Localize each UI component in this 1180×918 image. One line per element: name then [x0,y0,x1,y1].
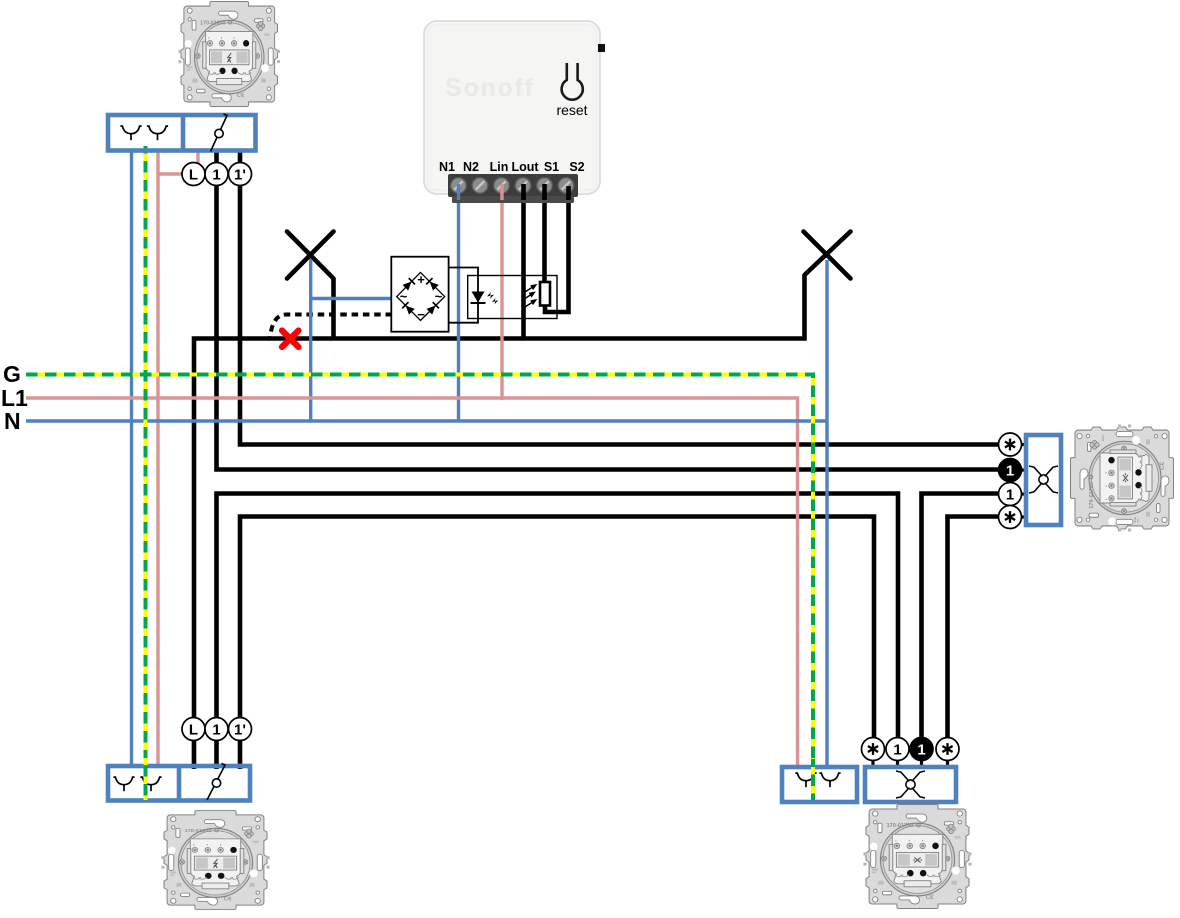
wire N to lamp2 [825,260,828,767]
wire lamp E1 to bus [331,278,336,339]
svg-text:N: N [4,408,21,434]
wire cross right 1 [922,494,1000,739]
switch symbol bottom-left box [207,764,225,801]
lamp symbols top box [120,126,141,140]
lamp E2 [804,232,851,279]
svg-text:+: + [417,272,425,287]
svg-text:N1: N1 [439,160,455,174]
wire S1 [542,186,547,283]
terminal star br [936,738,959,761]
red X do-not-connect [282,331,299,348]
wire Lout [521,186,526,339]
G riser over boxes [146,758,814,800]
terminal 1 white br [886,738,909,761]
terminal strip [448,174,578,197]
svg-text:1: 1 [212,166,220,183]
stubs top switch [217,150,241,163]
wire dotted bypass (not used) [270,315,392,338]
terminal labels [439,160,585,174]
wire N1 [457,186,460,421]
net G earth line [26,375,813,801]
svg-text:1: 1 [1006,486,1014,503]
svg-text:1: 1 [893,741,901,758]
switch mechanism right 170-04700 [1071,424,1174,531]
terminal star r2 [999,506,1022,529]
LED loop wires [449,268,478,323]
wire G riser left [144,146,148,800]
switch mechanism bottom-left 170-01600 [161,811,269,910]
svg-text:N2: N2 [463,160,479,174]
switch symbol top box [211,114,228,152]
svg-text:reset: reset [556,102,587,118]
switch box S-top [108,115,256,151]
wire tips over screws [457,184,460,200]
stubs right cross switch [1020,445,1027,518]
svg-text:~: ~ [400,289,408,304]
svg-text:Sonoff: Sonoff [445,74,534,102]
terminal 1p top [229,163,252,186]
lamp symbols bottom-left box [113,777,134,791]
reset button icon [562,63,583,100]
svg-text:1: 1 [1006,462,1014,479]
terminal 1p bottom [229,718,252,741]
wire traveller 1-top [217,152,1000,470]
cross switch box bottom-right [865,767,956,802]
wire traveller 1p-top [240,152,999,445]
terminal screws [451,178,574,194]
light arrows [524,285,536,307]
svg-text:−: − [417,307,425,322]
svg-text:1: 1 [212,721,220,738]
wire L1 riser left [156,150,159,767]
terminal star r1 [999,433,1022,456]
Sonoff Mini body [424,21,600,194]
lamp E1 [287,232,334,279]
wire traveller 1-bottom [217,494,899,770]
switch mechanism top-left 170-01600 [179,1,280,106]
wire S2 [545,186,569,312]
lamp box bottom-right [782,767,857,802]
terminal star bl [862,738,885,761]
antenna tab [598,44,605,52]
LED D1 [471,292,499,305]
wire traveller 1p-bottom [240,517,874,770]
terminal 1 black r [999,459,1022,482]
svg-text:S2: S2 [569,160,584,174]
svg-text:Lout: Lout [511,160,539,174]
wire Lout bus to lamps and lower switch L [194,274,805,769]
net N line [26,419,827,422]
svg-text:G: G [3,361,21,387]
wire Lin [500,186,503,400]
cross switch box right [1026,435,1061,525]
wire N to lamp1 and sensor [311,259,392,421]
terminal 1 top [205,163,228,186]
terminal 1 black br [910,738,933,761]
terminal 1 bottom [205,718,228,741]
optocoupler box [468,276,557,319]
svg-text:1: 1 [917,741,925,758]
svg-text:Lin: Lin [490,160,509,174]
svg-text:1': 1' [234,721,246,738]
terminal L top [182,163,205,186]
switch mechanism bottom-right 170-01700 [863,804,971,908]
switch box S-bottom-left [108,766,250,801]
terminal L bottom [182,718,205,741]
wire N riser left [130,150,133,766]
terminal 1 white r [999,483,1022,506]
bridge rectifier box [391,257,448,332]
stubs bottom-right cross switch [873,760,948,768]
net L1 line [26,398,798,767]
svg-text:1': 1' [234,166,246,183]
wire L1 jog to L terminal [157,172,187,175]
bridge rectifier diamond [397,272,445,320]
stubs bottom-left switch [194,740,241,767]
svg-text:L: L [189,721,198,738]
photoresistor R1 [540,282,550,306]
svg-text:S1: S1 [544,160,559,174]
svg-text:L: L [189,166,198,183]
wire cross right star [948,517,1000,739]
svg-text:~: ~ [435,289,443,304]
